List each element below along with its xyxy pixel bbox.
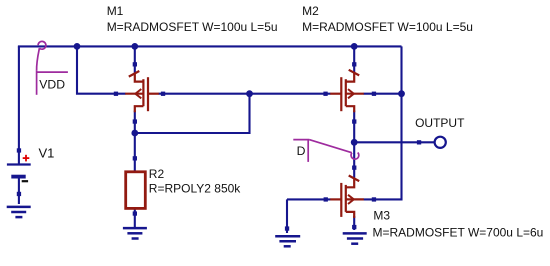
wire: R2 bottom to ground xyxy=(134,208,136,227)
wire: M1 source down to R2 xyxy=(134,111,136,173)
wire: M1 gate row to junction and M2 gate xyxy=(159,93,331,95)
wire: M3 gate branch horizontal xyxy=(287,198,331,200)
pin square M2 drain xyxy=(352,62,356,66)
svg-text:M3: M3 xyxy=(373,209,390,223)
pin square M3 drain xyxy=(352,166,356,170)
ground under M3 gate branch xyxy=(275,236,300,246)
ground under R2 xyxy=(123,228,147,238)
wire: M2 drain stub from top rail xyxy=(353,46,355,73)
wire: battery minus to ground xyxy=(18,177,20,204)
wire: top VDD rail horizontal xyxy=(18,45,402,47)
svg-text:OUTPUT: OUTPUT xyxy=(415,116,465,130)
pin square M2 source xyxy=(352,119,356,123)
pin square M3 bulk (right) xyxy=(372,197,376,201)
node E: junction dot top rail M2 drain xyxy=(351,43,358,50)
transistor M2 (gate left, bulk arrow right) xyxy=(330,70,364,113)
VDD net flag xyxy=(37,41,68,94)
svg-text:D: D xyxy=(297,144,306,158)
svg-text:VDD: VDD xyxy=(39,77,65,91)
node G: junction dot OUTPUT row xyxy=(351,139,358,146)
pin square V1 plus xyxy=(17,148,21,152)
battery V1 xyxy=(7,165,31,177)
svg-text:R=RPOLY2 850k: R=RPOLY2 850k xyxy=(149,182,241,196)
wire: left VDD rail vertical xyxy=(18,46,20,164)
ground under M3 source xyxy=(343,233,367,243)
node B: junction dot top rail M1 drain xyxy=(131,43,138,50)
wire: junction down and left to M1 source row xyxy=(135,94,250,133)
pin square M2 bulk (right) xyxy=(372,92,376,96)
pin square R2 top xyxy=(133,156,137,160)
pin square M3-gate ground xyxy=(285,226,289,230)
wire: right vertical from top rail down to M3 bulk row xyxy=(364,46,402,199)
wire: M2 source down through D node to M3 drain xyxy=(353,111,355,180)
svg-text:M=RADMOSFET W=100u L=5u: M=RADMOSFET W=100u L=5u xyxy=(107,20,278,34)
transistor M1 (mirrored, bulk arrow left) xyxy=(125,71,159,112)
pin square M1 drain xyxy=(133,62,137,66)
pin square M1 source xyxy=(133,119,137,123)
pin square R2 bottom xyxy=(133,211,137,215)
pin square M1 bulk (left) xyxy=(114,92,118,96)
pin square M2 gate (left) xyxy=(323,92,327,96)
node C: junction dot gate row xyxy=(246,90,253,97)
D net flag xyxy=(293,140,359,162)
battery V1 minus sign xyxy=(22,180,28,182)
node A: junction dot top rail x77 xyxy=(74,43,81,50)
pin square OUTPUT xyxy=(417,140,421,144)
wire: M2 bulk to right vertical xyxy=(364,93,402,95)
svg-text:M=RADMOSFET W=100u L=5u: M=RADMOSFET W=100u L=5u xyxy=(302,20,473,34)
wire: M3 source to ground xyxy=(353,216,355,230)
OUTPUT port circle xyxy=(435,137,446,148)
wire: M1 drain stub from top rail xyxy=(134,46,136,73)
ground under V1 xyxy=(7,207,31,217)
node D1: junction dot M1 source row xyxy=(131,130,138,137)
resistor R2 xyxy=(126,172,146,209)
pin square M3 gate (left) xyxy=(324,197,328,201)
svg-text:R2: R2 xyxy=(149,167,165,181)
node F: junction dot right vertical at M2 bulk row xyxy=(398,90,405,97)
svg-text:M=RADMOSFET W=700u L=6u: M=RADMOSFET W=700u L=6u xyxy=(373,226,544,240)
battery V1 plus sign xyxy=(23,155,30,162)
transistor M3 (gate left, bulk arrow right) xyxy=(330,176,364,219)
svg-text:M2: M2 xyxy=(302,4,319,18)
svg-text:M1: M1 xyxy=(107,4,124,18)
svg-text:V1: V1 xyxy=(39,146,55,161)
wire: branch from top rail down to M1 bulk row xyxy=(77,46,126,93)
pin square M3 source xyxy=(352,225,356,229)
wire: M3 gate branch down to ground xyxy=(286,199,288,233)
pin square V1 minus xyxy=(17,192,21,196)
wire: OUTPUT row horizontal xyxy=(354,141,434,143)
pin square M1 gate (right) xyxy=(161,92,165,96)
